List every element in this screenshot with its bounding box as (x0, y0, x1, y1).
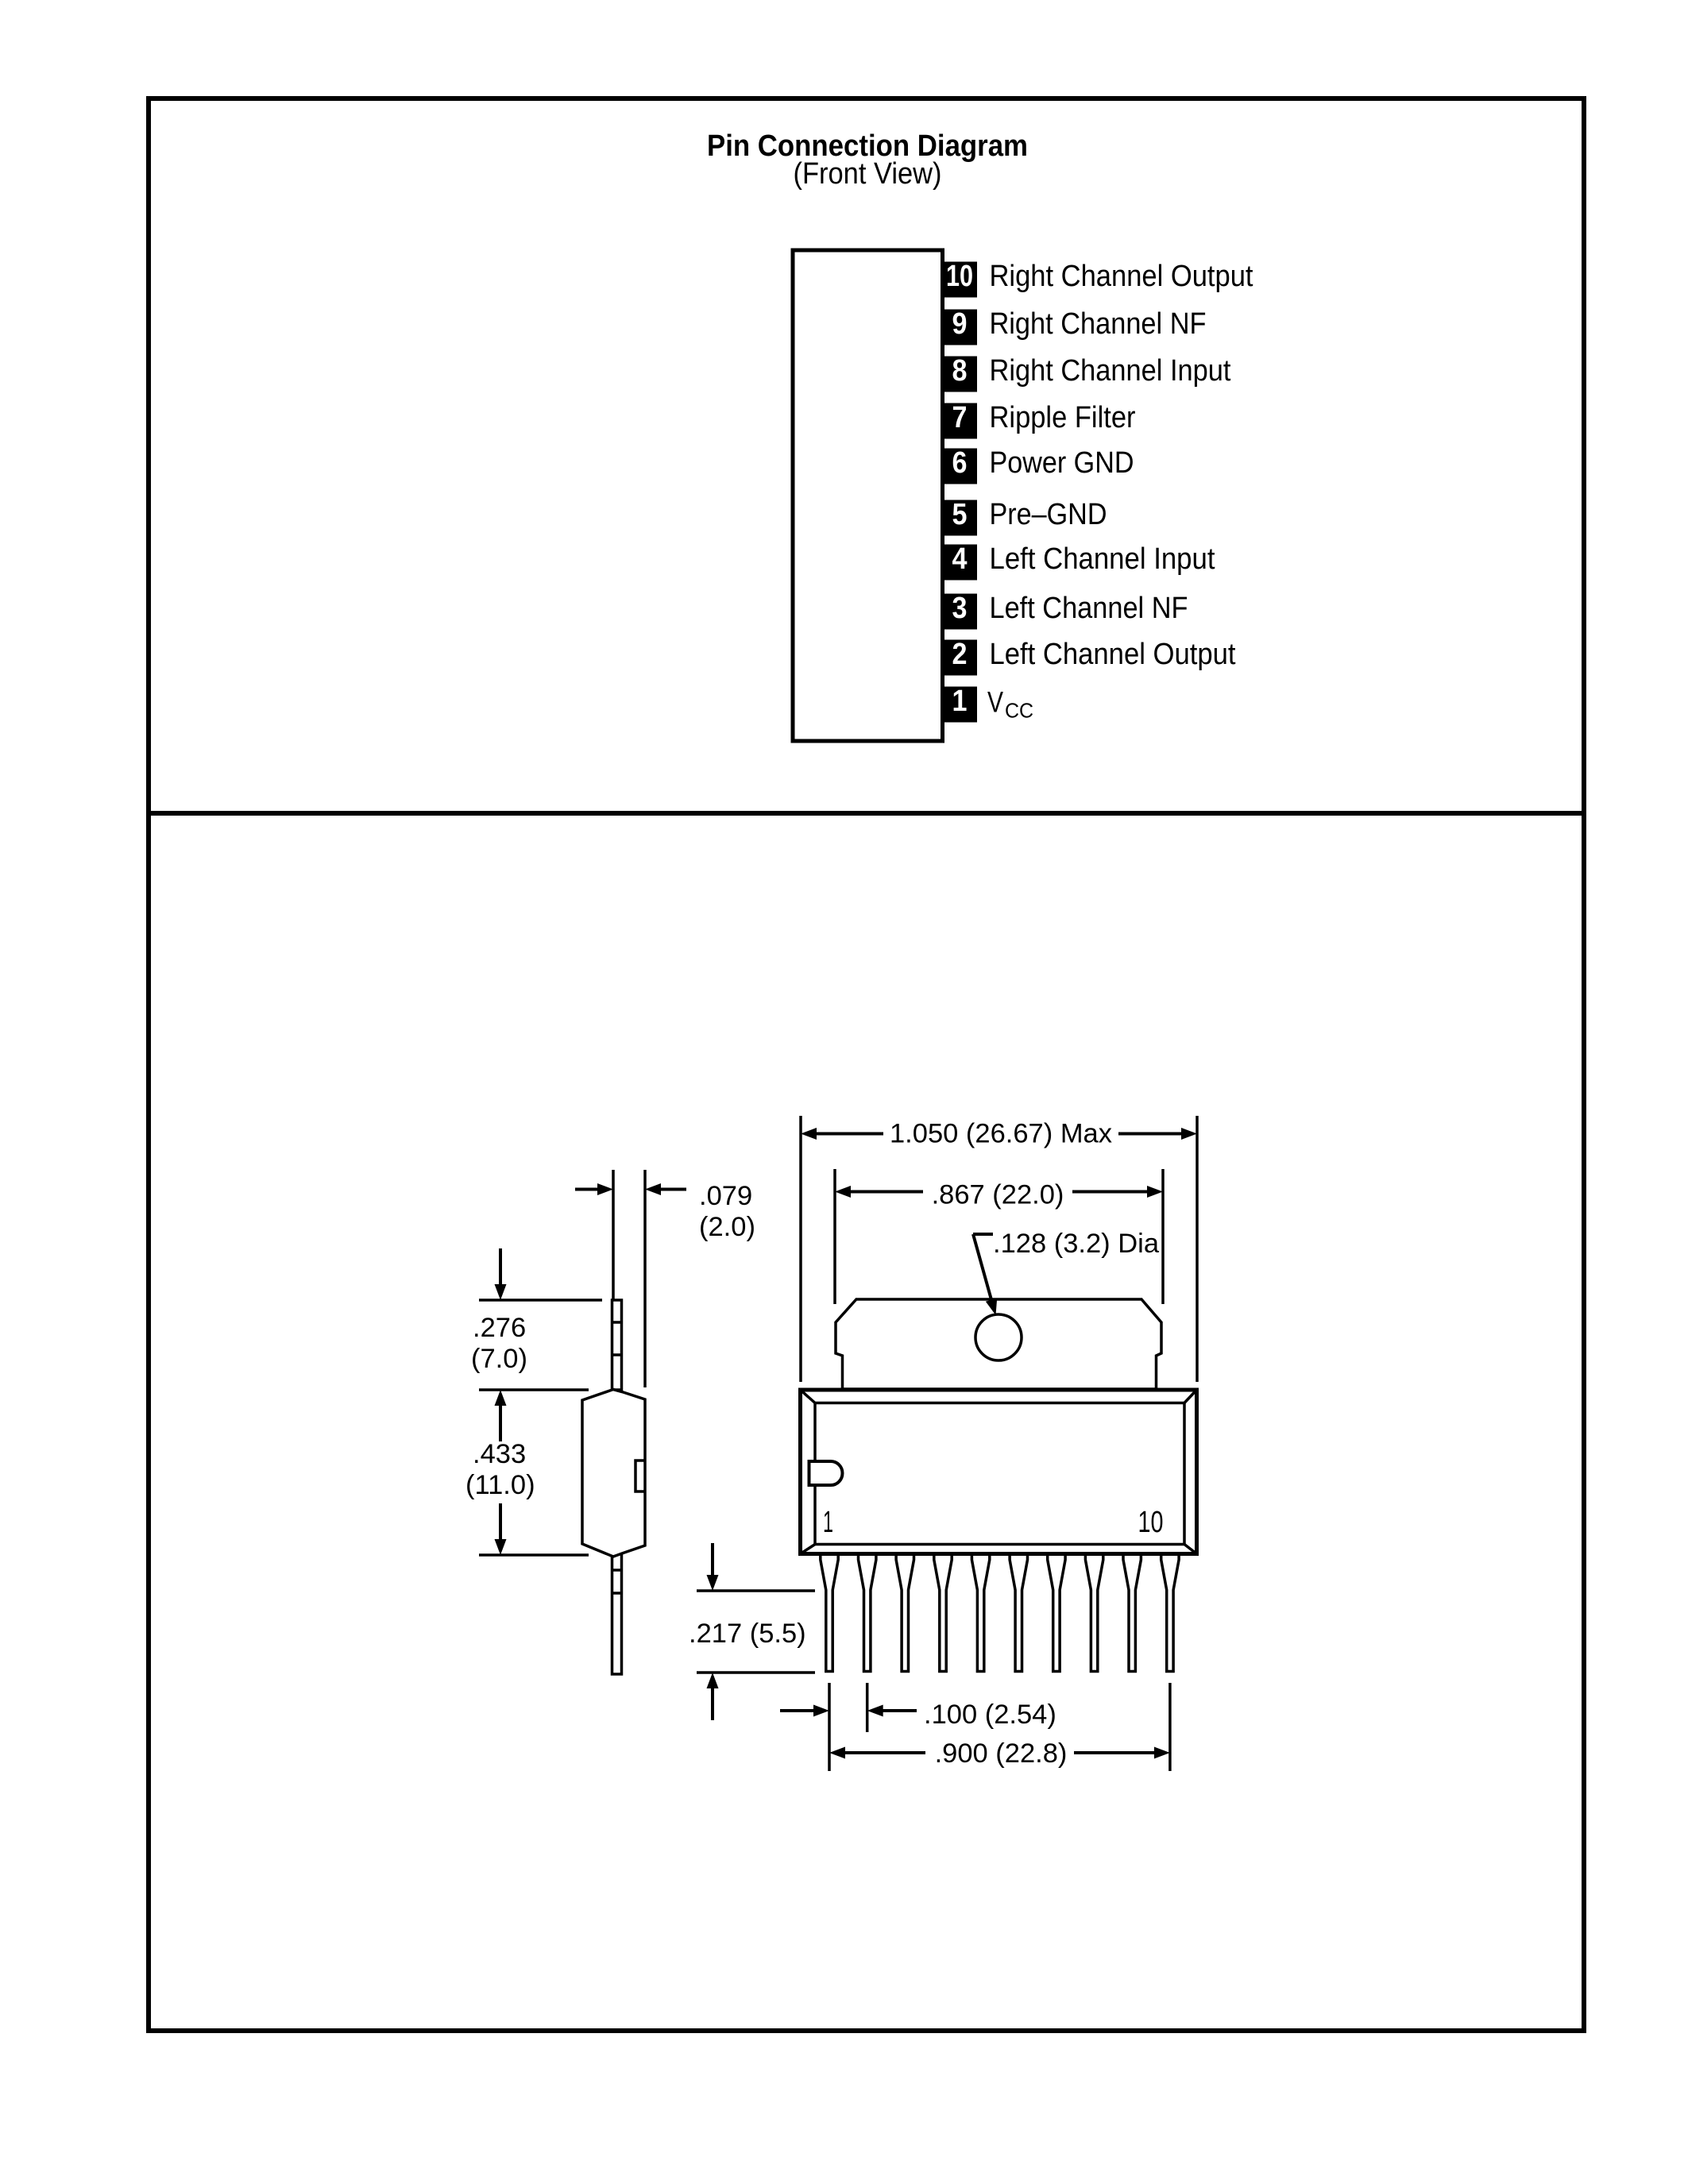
svg-text:(Front View): (Front View) (794, 157, 942, 191)
svg-text:10: 10 (1138, 1506, 1164, 1539)
dimension .079 (2.0): left extension line (612, 1170, 615, 1300)
dimension .100 (2.54): arrows (780, 1709, 817, 1712)
svg-text:.900 (22.8): .900 (22.8) (935, 1738, 1068, 1769)
svg-text:8: 8 (952, 354, 968, 388)
dimension .217 (5.5): top reference line (697, 1589, 815, 1592)
dimension .433 (11.0): down arrow (499, 1503, 502, 1545)
dimension .867 (22.0): dimension line and arrows (849, 1190, 923, 1194)
lead 2 (859, 1556, 876, 1672)
side view: mounting hole edge marks (612, 1321, 622, 1324)
svg-text:Left Channel NF: Left Channel NF (990, 592, 1188, 625)
dimension .433 (11.0): up arrow (499, 1400, 502, 1441)
pin 8 marker box (943, 357, 978, 392)
dimension .900 (22.8): dimension line and arrows (842, 1751, 925, 1754)
pin 10 marker box (943, 262, 978, 298)
dimension .276 (7.0): down arrow (499, 1248, 502, 1290)
front view: mounting hole (975, 1314, 1022, 1360)
lead 8 (1085, 1556, 1103, 1672)
dimension .867 (22.0): right extension line (1161, 1169, 1165, 1304)
dimension .079 (2.0): arrows (575, 1188, 601, 1191)
side view: molded body profile (582, 1390, 645, 1557)
dimension .217 (5.5): down arrow (711, 1543, 714, 1580)
svg-text:V: V (987, 686, 1003, 719)
dimension .217 (5.5): bottom reference line (697, 1671, 815, 1674)
svg-text:9: 9 (952, 307, 968, 341)
lead 7 (1048, 1556, 1065, 1672)
svg-text:.100 (2.54): .100 (2.54) (924, 1700, 1056, 1730)
page frame border (149, 98, 1584, 2031)
svg-text:1: 1 (952, 685, 968, 718)
svg-text:10: 10 (946, 260, 973, 293)
pin 9 marker box (943, 310, 978, 345)
svg-text:1.050 (26.67) Max: 1.050 (26.67) Max (890, 1119, 1112, 1149)
dimension .217 (5.5): up arrow (711, 1683, 714, 1720)
svg-text:3: 3 (952, 592, 968, 625)
pin 3 marker box (943, 594, 978, 630)
side view: upper heatsink tab edge-on (612, 1300, 622, 1390)
pin 1 marker box (943, 687, 978, 723)
lead 5 (971, 1556, 989, 1672)
dimension .433 (11.0): bottom reference line (479, 1553, 589, 1557)
side view: lower leads edge-on (612, 1549, 622, 1674)
svg-text:6: 6 (952, 446, 968, 480)
svg-text:Ripple Filter: Ripple Filter (990, 401, 1136, 434)
dimension .276 (7.0): bottom reference line (479, 1388, 589, 1391)
lead 10 (1161, 1556, 1179, 1672)
svg-text:Pre–GND: Pre–GND (990, 498, 1107, 531)
IC package body outline U1 (front view) (793, 250, 943, 741)
pin 5 marker box (943, 500, 978, 536)
dimension 1.050 (26.67) Max: dimension line and arrows (815, 1133, 883, 1136)
svg-text:Left Channel Output: Left Channel Output (990, 638, 1236, 671)
lead 3 (896, 1556, 914, 1672)
dimension 1.050 (26.67) Max: right extension line (1196, 1116, 1199, 1382)
svg-text:Right Channel Output: Right Channel Output (990, 260, 1253, 293)
svg-text:Right Channel NF: Right Channel NF (990, 307, 1207, 341)
svg-text:4: 4 (952, 542, 968, 576)
svg-text:(2.0): (2.0) (699, 1212, 755, 1242)
pin 7 marker box (943, 403, 978, 439)
svg-text:.867 (22.0): .867 (22.0) (932, 1180, 1064, 1210)
svg-text:Right Channel Input: Right Channel Input (990, 354, 1231, 388)
svg-text:.276: .276 (473, 1313, 526, 1343)
lead 4 (934, 1556, 952, 1672)
svg-text:Power GND: Power GND (990, 446, 1134, 480)
svg-text:1: 1 (823, 1506, 833, 1539)
front view: pin 1 index notch (D shape) (809, 1461, 843, 1485)
lead 6 (1010, 1556, 1027, 1672)
svg-text:7: 7 (952, 401, 968, 434)
pin 2 marker box (943, 640, 978, 676)
svg-text:(11.0): (11.0) (465, 1470, 535, 1500)
dimension .867 (22.0): left extension line (833, 1169, 836, 1304)
front view: heatsink tab outline (836, 1299, 1161, 1389)
dimension .900 (22.8): pin10 extension line (1168, 1683, 1172, 1771)
dimension .276 (7.0): top reference line (479, 1298, 602, 1302)
pin 4 marker box (943, 545, 978, 581)
svg-text:CC: CC (1005, 699, 1033, 723)
side view: index notch on body edge (635, 1461, 645, 1491)
pin 6 marker box (943, 449, 978, 484)
dimension .100 (2.54): pin1 extension line (828, 1683, 831, 1771)
front view: bevel corner lines (801, 1390, 816, 1403)
svg-text:.128 (3.2) Dia: .128 (3.2) Dia (993, 1229, 1160, 1259)
lead 1 (821, 1556, 838, 1672)
svg-text:.433: .433 (473, 1439, 526, 1469)
dimension .079 (2.0): right extension line (643, 1170, 647, 1387)
svg-text:(7.0): (7.0) (471, 1344, 527, 1374)
front view: package body outer outline (801, 1390, 1197, 1554)
svg-text:Left Channel Input: Left Channel Input (990, 542, 1215, 576)
dimension 1.050 (26.67) Max: left extension line (799, 1116, 802, 1382)
svg-text:5: 5 (952, 498, 968, 531)
dimension .100 (2.54): pin2 extension line (866, 1683, 869, 1732)
svg-text:.079: .079 (699, 1181, 752, 1211)
lead 9 (1123, 1556, 1141, 1672)
svg-text:2: 2 (952, 638, 968, 671)
svg-text:.217 (5.5): .217 (5.5) (689, 1619, 806, 1649)
horizontal divider line (149, 811, 1584, 816)
front view: package body inner bevel outline (815, 1403, 1184, 1545)
side view: lead shoulder marks (612, 1569, 622, 1572)
